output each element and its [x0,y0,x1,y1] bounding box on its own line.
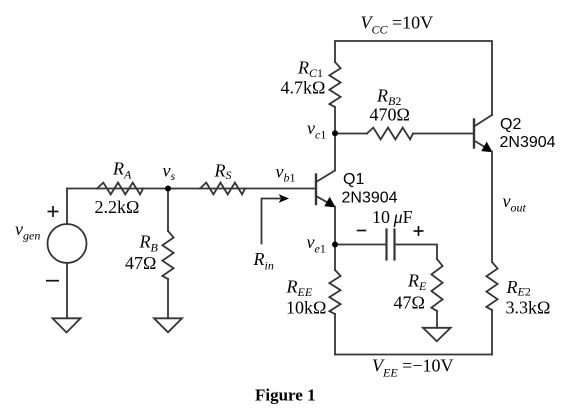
wire input line [67,188,316,190]
source plus [48,206,59,217]
Rin arrow [262,199,282,244]
wire RE2 to rail [491,310,493,355]
svg-text:RS: RS [214,161,232,183]
svg-text:10kΩ: 10kΩ [286,298,326,318]
node ve1 [332,242,338,248]
svg-text:47Ω: 47Ω [394,293,425,313]
svg-text:2N3904: 2N3904 [342,190,398,207]
wire RB to ground [167,279,169,318]
wire ve1 to cap [335,244,386,246]
capacitor C1 plates [385,230,387,260]
resistor RE [431,259,442,311]
wire RE to ground [436,311,438,328]
resistor RS [200,183,245,195]
wire RB branch [167,189,169,232]
svg-text:4.7kΩ: 4.7kΩ [281,78,326,98]
wire REE to rail [334,314,336,355]
svg-text:Figure 1: Figure 1 [255,386,316,405]
wire bottom rail VEE [335,354,492,356]
svg-text:Q1: Q1 [343,171,364,188]
ground (RB) [154,318,182,332]
wire Q2 emitter / vout [491,152,493,263]
resistor REE [329,270,340,314]
svg-text:vout: vout [503,191,527,215]
svg-text:RA: RA [112,159,132,182]
ground (vgen) [53,318,81,332]
wire Q1 emitter down [334,207,336,271]
wire cap to RE [395,245,438,260]
svg-text:470Ω: 470Ω [370,105,410,125]
svg-text:VEE =−10V: VEE =−10V [372,355,453,379]
source vgen [48,224,87,263]
svg-text:RC1: RC1 [297,57,323,80]
svg-text:vs: vs [163,161,176,184]
svg-text:vc1: vc1 [307,118,326,142]
svg-text:VCC =10V: VCC =10V [361,13,434,37]
cap minus [357,230,366,232]
node vs [165,186,171,192]
source minus [46,280,59,282]
wire vgen to ground [66,263,68,318]
wire RC1 to Q1 collector [334,107,336,171]
wire RB2 left [335,133,367,135]
node vc1 [332,130,338,136]
resistor RC1 [329,62,340,107]
svg-text:2N3904: 2N3904 [500,134,556,151]
ground (RE) [423,328,451,342]
wire RB2 right [413,133,474,135]
svg-text:3.3kΩ: 3.3kΩ [506,297,551,317]
svg-text:RE: RE [407,270,427,293]
svg-text:ve1: ve1 [307,232,326,256]
svg-text:REE: REE [286,276,313,299]
wire top rail VCC [335,41,492,115]
svg-text:10 μF: 10 μF [372,207,413,227]
wire vgen branch top [66,189,68,225]
resistor RE2 [486,262,497,310]
transistor Q1 [316,171,336,208]
cap plus [414,226,424,236]
svg-text:RE2: RE2 [506,277,531,299]
svg-text:RB: RB [139,232,159,255]
svg-text:47Ω: 47Ω [125,253,156,273]
svg-text:vgen: vgen [15,219,40,243]
resistor RB [162,231,173,279]
svg-text:2.2kΩ: 2.2kΩ [95,197,140,217]
transistor Q2 [474,115,493,152]
resistor RB2 [367,128,413,140]
resistor RA [97,183,143,195]
svg-text:Rin: Rin [253,249,274,273]
svg-text:Q2: Q2 [500,116,521,133]
svg-text:vb1: vb1 [276,162,296,185]
